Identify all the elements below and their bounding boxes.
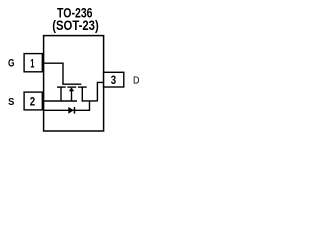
wire diode branch (anode side from source) <box>44 109 91 111</box>
channel segment body (middle) <box>67 86 76 88</box>
svg-text:3: 3 <box>111 73 117 87</box>
body diode D1 triangle (anode->cathode, pointing right) <box>68 107 74 114</box>
wire drain riser to pin 3 <box>97 82 103 101</box>
wire source/body rail to pin 2 <box>44 100 77 102</box>
wire drain jog bar <box>82 100 98 102</box>
svg-text:G: G <box>8 57 15 69</box>
pin 2 box <box>24 92 42 110</box>
body arrow (points into channel, N-channel) <box>69 88 74 92</box>
wire cathode-to-drain drop <box>89 101 91 110</box>
svg-text:1: 1 <box>30 56 34 70</box>
svg-text:S: S <box>8 96 14 108</box>
channel segment drain side <box>78 86 87 88</box>
drain stub <box>81 87 83 102</box>
transistor Q1 (N-channel MOSFET) <box>44 63 87 101</box>
gate bar <box>62 83 81 85</box>
pin 3 box <box>104 72 124 87</box>
svg-text:(SOT-23): (SOT-23) <box>52 17 99 33</box>
package outline (SOT-23 body) <box>44 36 104 131</box>
channel segment source side <box>57 86 66 88</box>
wire gate from pin 1 <box>44 63 63 84</box>
source stub <box>60 87 62 101</box>
svg-text:D: D <box>133 74 140 86</box>
svg-text:2: 2 <box>30 95 36 109</box>
pin 1 box <box>24 54 42 72</box>
body stub <box>71 88 73 101</box>
body diode D1 cathode bar <box>74 107 76 114</box>
